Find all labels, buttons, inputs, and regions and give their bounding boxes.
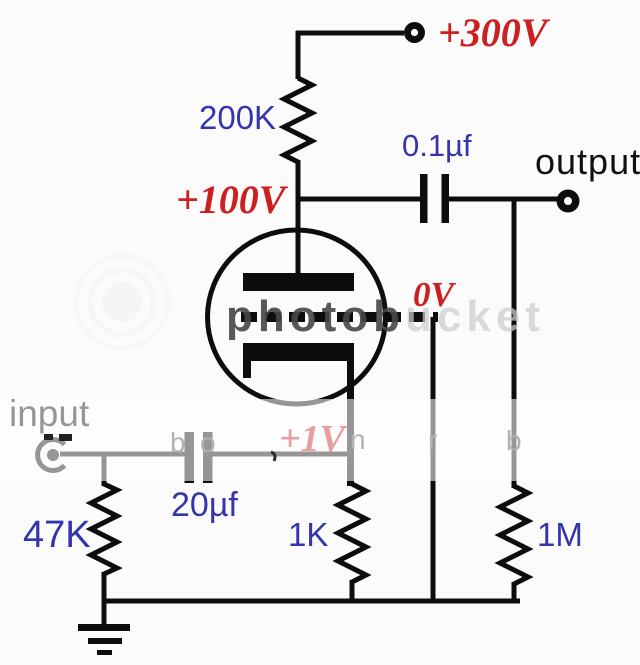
svg-text:r: r [428,424,437,455]
wire output node down to 1M [512,197,517,488]
capacitor 0.1µf [420,174,449,223]
jack top dark marks [44,434,72,441]
svg-text:+300V: +300V [438,10,551,55]
watermark band [0,399,640,481]
cathode hook leg [243,361,251,378]
svg-text:o: o [200,427,216,458]
input jack J1 [38,439,65,470]
svg-text:47K: 47K [23,514,91,556]
svg-text:20µf: 20µf [171,486,238,524]
wire plate node to coupling cap [296,197,421,202]
svg-text:1K: 1K [288,516,328,553]
terminal +300V [404,22,425,43]
triode V1 envelope [208,230,386,404]
svg-text:b: b [170,427,186,458]
wire plate lead from 200K down into tube to plate [296,160,301,275]
capacitor 20µf [185,432,213,483]
svg-text:n: n [350,424,366,455]
resistor 47K [91,484,117,574]
wire grid down to ground bus [431,317,436,601]
resistor 1K [338,484,366,582]
cathode of V1 [243,343,354,361]
wire input node down to 47K [102,453,107,486]
svg-text:b: b [506,425,522,456]
svg-text:200K: 200K [199,99,276,136]
wire 20µf to cathode node [212,452,351,457]
wire 1M to ground bus [512,582,517,601]
wire cathode lead down to 1K [347,361,354,486]
svg-text:photobucket: photobucket [226,292,545,341]
wire input jack to 20µf [60,452,185,457]
plate of V1 [243,273,354,291]
ground bus wire [104,599,520,604]
terminal output [557,190,580,213]
svg-text:1M: 1M [537,516,583,553]
svg-text:output: output [535,141,640,182]
wire B+ horizontal from supply terminal to 200K top [296,31,404,36]
ground [78,601,130,655]
wire 1K to ground bus [350,580,355,601]
svg-text:+100V: +100V [176,177,289,222]
wire cap to output terminal [449,197,558,202]
grid of V1 (dashed) [241,312,438,322]
resistor 200K [284,78,312,162]
watermark roundel ghost [76,256,168,348]
wire 47K to ground bus [102,572,107,601]
svg-text:0.1µf: 0.1µf [402,128,472,163]
wire from B+ corner down to 200K [296,31,301,79]
resistor 1M [500,486,528,584]
watermark small letters [170,424,522,458]
stray mark [271,452,275,461]
